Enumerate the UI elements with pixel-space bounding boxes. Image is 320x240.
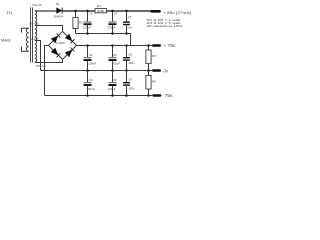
svg-text:+ 75v: + 75v [164, 43, 177, 48]
svg-text:100n: 100n [128, 61, 135, 65]
svg-text:C8: C8 [128, 52, 132, 56]
svg-text:R3: R3 [152, 54, 156, 58]
svg-text:56v AC: 56v AC [30, 21, 41, 25]
svg-text:C9: C9 [128, 77, 132, 81]
svg-text:C1: C1 [89, 12, 93, 16]
svg-text:C6: C6 [113, 78, 117, 82]
svg-text:1N4004: 1N4004 [54, 15, 64, 19]
svg-text:C2: C2 [89, 53, 93, 57]
svg-text:R1: R1 [97, 4, 101, 8]
svg-text:+ 85v (27mA): + 85v (27mA) [163, 10, 192, 15]
svg-text:100n: 100n [126, 25, 133, 29]
svg-text:10k: 10k [97, 9, 106, 13]
svg-text:5A 400v: 5A 400v [55, 41, 65, 45]
svg-text:100uF: 100uF [108, 87, 116, 91]
svg-text:C7: C7 [128, 15, 132, 19]
svg-text:C4: C4 [114, 12, 118, 16]
svg-text:C3: C3 [89, 78, 93, 82]
svg-text:Mains: Mains [1, 39, 11, 43]
svg-text:100n: 100n [128, 87, 135, 91]
svg-text:100uF: 100uF [86, 87, 94, 91]
svg-text:6v AC: 6v AC [30, 37, 39, 41]
svg-text:All capacitors 100v: All capacitors 100v [147, 24, 184, 28]
svg-text:- 75v: - 75v [162, 93, 174, 98]
svg-text:56v AC: 56v AC [36, 64, 47, 68]
svg-text:0v: 0v [164, 68, 169, 73]
svg-text:Tr1: Tr1 [7, 11, 14, 16]
svg-text:R2: R2 [79, 20, 83, 24]
svg-text:R4: R4 [152, 79, 156, 83]
svg-text:63v AC: 63v AC [33, 3, 42, 7]
svg-text:100uF: 100uF [88, 61, 96, 65]
svg-text:100uF: 100uF [112, 61, 120, 65]
svg-text:D1: D1 [56, 2, 60, 6]
svg-text:C5: C5 [113, 53, 117, 57]
svg-text:220uF: 220uF [83, 25, 91, 29]
svg-text:220uF: 220uF [107, 25, 115, 29]
